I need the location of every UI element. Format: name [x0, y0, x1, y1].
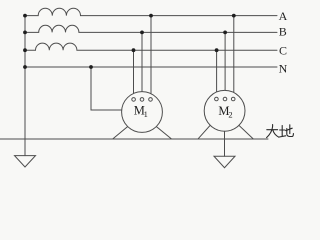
motor M1 mounting feet — [113, 127, 172, 139]
label: earth (da di) drawn glyphs — [267, 125, 294, 138]
junction dot B-M1 — [140, 31, 144, 35]
motor M1 terminal pins — [132, 98, 153, 102]
svg-text:A: A — [279, 9, 288, 23]
svg-text:C: C — [279, 44, 287, 58]
svg-text:2: 2 — [228, 109, 232, 119]
wire: neutral line N — [25, 66, 277, 68]
ground symbol (left, earthing of neutral bus) — [15, 156, 36, 167]
wire: M1 drop from B — [141, 32, 143, 97]
motor M2 body — [204, 90, 245, 131]
junction dot A-M2 — [232, 14, 236, 18]
inductor L2 (phase B line) — [25, 25, 277, 32]
motor M2 terminal pins — [215, 97, 235, 101]
svg-text:B: B — [279, 24, 287, 38]
svg-text:N: N — [279, 61, 288, 75]
ground symbol (under M2) — [214, 156, 235, 168]
wire: neutral tap to M1 frame — [91, 67, 122, 110]
motor M2 mounting feet — [198, 125, 253, 139]
junction dot C-M1 — [132, 48, 136, 52]
wire: M2 drop from C — [216, 50, 218, 97]
junction dot bus-B — [23, 31, 27, 35]
junction dot B-M2 — [223, 31, 227, 35]
wire: M1 drop from C — [133, 50, 135, 97]
wire: M1 drop from A — [150, 16, 152, 98]
motor M1 body — [122, 92, 163, 133]
wire: left vertical bus — [24, 16, 26, 156]
svg-text:1: 1 — [144, 109, 148, 119]
inductor L3 (phase C line) — [25, 43, 277, 50]
junction dot N tap — [89, 65, 93, 69]
junction dot A-M1 — [149, 14, 153, 18]
inductor L1 (phase A line) — [25, 8, 277, 15]
junction dot bus-A — [23, 14, 27, 18]
wire: M2 drop from B — [224, 32, 226, 97]
junction dot bus-C — [23, 48, 27, 52]
wire: earth line — [0, 138, 268, 140]
junction dot bus-N — [23, 65, 27, 69]
junction dot C-M2 — [215, 48, 219, 52]
wire: M2 frame to earth electrode — [224, 131, 226, 156]
wire: M2 drop from A — [233, 16, 235, 98]
